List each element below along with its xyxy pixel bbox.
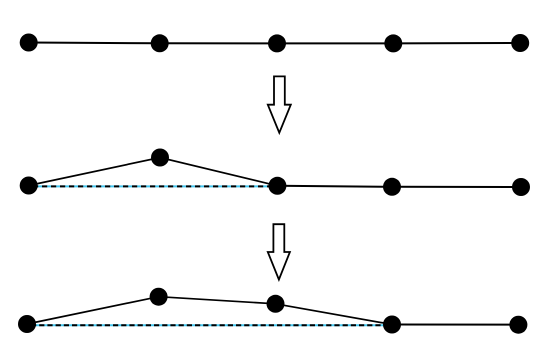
node B3 (middle row dot 3) bbox=[268, 177, 286, 195]
wire: bottom row right baseline bbox=[392, 324, 518, 326]
node C3 (bottom row raised dot 2) bbox=[267, 295, 285, 313]
node B2 (middle row raised dot) bbox=[151, 149, 169, 167]
wire: middle row tent left slope bbox=[29, 158, 278, 186]
node B4 (middle row dot 4) bbox=[383, 178, 401, 196]
wire: top row baseline bbox=[29, 42, 521, 45]
node A2 (top row dot 2) bbox=[151, 34, 169, 52]
node A1 (top row dot 1) bbox=[20, 34, 38, 52]
node B1 (middle row dot 1) bbox=[20, 177, 38, 195]
node A4 (top row dot 4) bbox=[384, 34, 402, 52]
node A5 (top row dot 5) bbox=[511, 34, 529, 52]
arrow 2 (hollow down arrow) bbox=[268, 224, 290, 279]
wire: bottom row dashed base (black dashes) bbox=[31, 324, 392, 326]
node B5 (middle row dot 5) bbox=[512, 178, 530, 196]
wire: middle row dashed base (black dashes) bbox=[33, 185, 277, 187]
node C5 (bottom row dot 5) bbox=[509, 316, 527, 334]
node A3 (top row dot 3) bbox=[268, 34, 286, 52]
arrow 1 (hollow down arrow) bbox=[268, 76, 291, 132]
wire: bottom row hump bbox=[27, 297, 392, 325]
node C4 (bottom row dot 4) bbox=[383, 316, 401, 334]
wire: bottom row dashed base (cyan underlay) bbox=[31, 324, 392, 326]
node C1 (bottom row dot 1) bbox=[18, 315, 36, 333]
wire: middle row right baseline bbox=[277, 186, 521, 187]
node C2 (bottom row raised dot) bbox=[150, 288, 168, 306]
wire: middle row dashed base (cyan underlay) bbox=[33, 185, 277, 187]
